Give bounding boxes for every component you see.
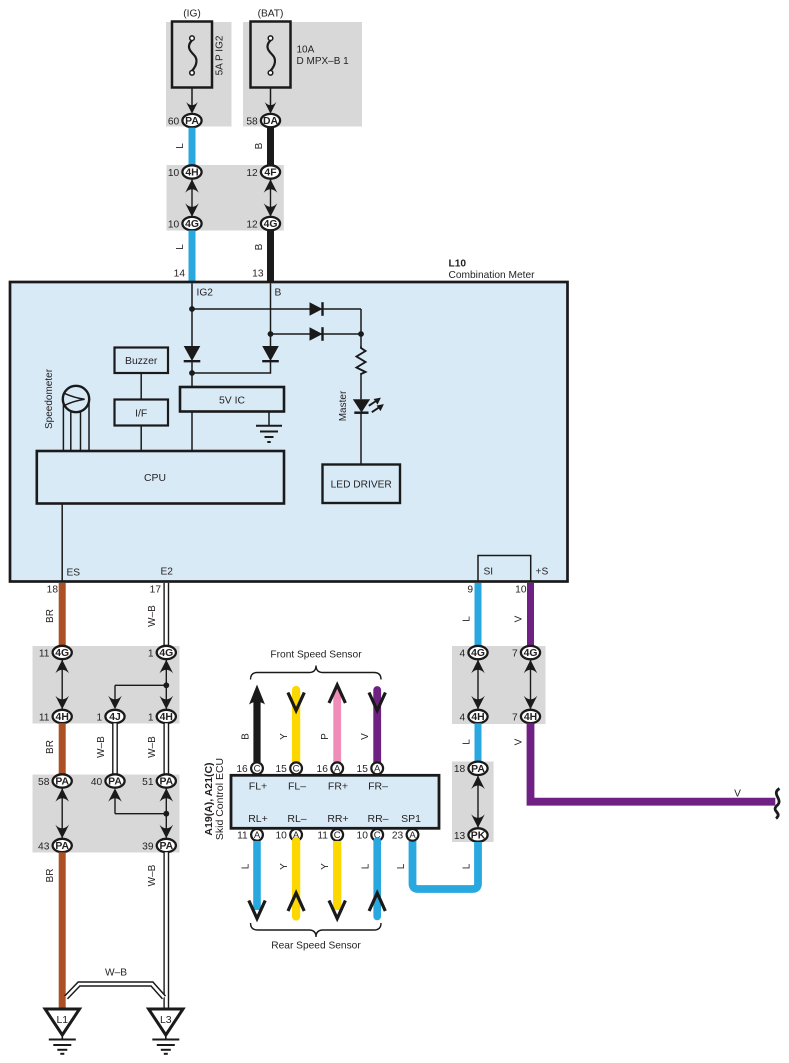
svg-text:Y: Y — [320, 863, 331, 870]
svg-text:DA: DA — [263, 116, 279, 127]
wire BR brown ES to 4G — [59, 583, 66, 646]
pin 11 (C) RR+ — [317, 829, 343, 842]
svg-text:L: L — [396, 863, 407, 869]
pin 16 (C) FL+ — [236, 762, 263, 775]
svg-text:4G: 4G — [524, 648, 538, 659]
svg-text:+S: +S — [536, 567, 549, 578]
skid control ECU box — [231, 775, 439, 828]
wire L blue 4G to meter pin 14 — [189, 230, 196, 282]
svg-text:D MPX–B 1: D MPX–B 1 — [297, 56, 350, 67]
CPU box — [37, 451, 284, 504]
svg-text:15: 15 — [275, 764, 287, 775]
connector 58 DA (battery feed) — [246, 114, 280, 128]
5V IC box — [180, 387, 284, 412]
svg-text:Y: Y — [279, 733, 290, 740]
svg-text:1: 1 — [148, 648, 154, 659]
wire L blue 4H to 18 PA — [475, 723, 482, 761]
svg-text:LED DRIVER: LED DRIVER — [331, 480, 392, 491]
wire W-B 4H to 51 PA — [163, 723, 169, 774]
connector 43 PA (left) — [38, 839, 72, 853]
svg-text:Buzzer: Buzzer — [125, 356, 158, 367]
svg-text:L: L — [361, 863, 372, 869]
svg-text:PA: PA — [471, 764, 485, 775]
svg-text:I/F: I/F — [135, 409, 147, 420]
svg-text:11: 11 — [317, 830, 328, 841]
svg-text:A: A — [334, 764, 341, 775]
svg-text:ES: ES — [67, 568, 81, 579]
speedometer gauge symbol — [63, 386, 89, 451]
svg-text:4G: 4G — [55, 648, 69, 659]
wire W-B E2 to 4G — [163, 583, 169, 646]
pin 16 (A) FR+ — [317, 762, 344, 775]
svg-text:Y: Y — [279, 863, 290, 870]
svg-text:BR: BR — [45, 740, 56, 754]
wire IG2 internal vertical — [191, 283, 193, 346]
pin 15 (A) FR- — [357, 762, 384, 775]
wire L blue SP1 to 13 PK — [413, 841, 479, 889]
svg-text:Speedometer: Speedometer — [44, 368, 55, 429]
svg-text:FL–: FL– — [288, 781, 306, 793]
connector 13 PK (right) — [454, 828, 488, 842]
svg-text:10: 10 — [168, 168, 180, 179]
svg-text:4J: 4J — [109, 712, 121, 723]
combination meter L10 box — [10, 282, 568, 582]
svg-text:4G: 4G — [264, 219, 278, 230]
svg-text:9: 9 — [467, 585, 473, 596]
gray panel 4G/4H junction (bottom left) — [33, 646, 180, 724]
connector 4 4G (right junction) — [460, 646, 488, 660]
svg-text:(IG): (IG) — [183, 9, 201, 20]
wire 5V IC to CPU — [191, 412, 193, 452]
SI terminal box — [478, 556, 531, 582]
svg-text:16: 16 — [317, 764, 329, 775]
wire V violet front sensor FR- (arrow down) — [369, 690, 385, 762]
svg-text:L1: L1 — [56, 1014, 68, 1026]
svg-text:10: 10 — [515, 585, 527, 596]
wire D4 to IG2 node — [192, 361, 271, 373]
svg-text:B: B — [254, 142, 265, 149]
svg-text:11: 11 — [39, 712, 50, 723]
wire B black DA to 4F — [267, 128, 274, 166]
junction W-B merge — [163, 811, 169, 817]
svg-text:L: L — [462, 863, 473, 869]
svg-text:L: L — [175, 143, 186, 149]
svg-text:A: A — [409, 830, 416, 841]
wire 5V IC to ground — [268, 412, 270, 426]
svg-text:12: 12 — [246, 219, 258, 230]
svg-text:L3: L3 — [160, 1014, 172, 1026]
wire branch to 4J — [108, 685, 166, 709]
svg-text:SP1: SP1 — [401, 813, 421, 825]
wire I/F to CPU — [140, 426, 142, 452]
svg-text:60: 60 — [168, 116, 180, 127]
wire BR brown 43 PA to ground L1 — [59, 852, 66, 1009]
svg-text:L10: L10 — [449, 259, 467, 270]
wire V violet +S to 4G — [527, 583, 534, 646]
svg-text:W–B: W–B — [105, 968, 127, 979]
svg-text:E2: E2 — [161, 567, 174, 578]
svg-text:SI: SI — [484, 567, 494, 578]
connector-pair arrows (51 PA to 39 PA) — [160, 788, 174, 838]
connector 1 4H (mid junction) — [148, 710, 176, 724]
svg-text:FR–: FR– — [368, 781, 388, 793]
svg-text:17: 17 — [150, 585, 162, 596]
wire diode output vertical — [360, 309, 362, 347]
connector 10 4H (junction top left) — [168, 165, 202, 179]
svg-text:P: P — [320, 733, 331, 740]
svg-text:40: 40 — [91, 777, 103, 788]
junction B branch — [268, 331, 274, 337]
svg-text:7: 7 — [512, 712, 518, 723]
svg-text:11: 11 — [237, 830, 248, 841]
ground internal 5V IC — [256, 426, 282, 442]
svg-text:IG2: IG2 — [197, 288, 214, 299]
gray panel behind fuse (IG) — [166, 22, 232, 127]
wire Y yellow rear sensor RL- (arrow up) — [288, 841, 304, 917]
svg-text:(BAT): (BAT) — [258, 9, 284, 20]
svg-text:4: 4 — [460, 712, 466, 723]
junction W-B branch to 4J — [163, 682, 169, 688]
svg-text:10: 10 — [357, 830, 369, 841]
diode D1 from IG2 — [310, 302, 323, 316]
connector-pair arrows (18 PA to 13 PK) — [471, 776, 485, 828]
svg-text:W–B: W–B — [147, 605, 158, 627]
connector 58 PA (left) — [38, 774, 72, 788]
svg-text:PK: PK — [471, 831, 486, 842]
wire 40 PA merge to main W-B — [108, 788, 166, 814]
svg-text:L: L — [241, 863, 252, 869]
svg-text:4H: 4H — [471, 712, 484, 723]
svg-text:58: 58 — [246, 116, 258, 127]
svg-text:B: B — [241, 733, 252, 740]
pin 10 (A) RL- — [275, 829, 302, 842]
wire fuse IG to connector PA — [186, 88, 198, 114]
connector 60 PA (ignition feed) — [168, 114, 202, 128]
svg-text:A: A — [254, 830, 261, 841]
svg-text:10A: 10A — [297, 45, 315, 56]
svg-text:FR+: FR+ — [328, 781, 348, 793]
gray panel PA/PK junction (right) — [452, 762, 494, 843]
svg-text:L: L — [175, 244, 186, 250]
I/F box — [115, 400, 169, 426]
connector 12 4F (junction top right) — [246, 165, 280, 179]
wire B black 4G to meter pin 13 — [267, 230, 274, 282]
connector-pair arrows (4G to 4H right a) — [471, 660, 485, 710]
svg-text:RR+: RR+ — [327, 813, 348, 825]
wire B to diode D2 horizontal — [271, 333, 362, 335]
connector-pair arrows (4H to 4G) — [185, 179, 199, 217]
ECU terminal labels top row — [249, 781, 388, 793]
svg-text:4G: 4G — [471, 648, 485, 659]
connector-pair arrows (4G to 4H right b) — [524, 660, 538, 710]
svg-text:18: 18 — [47, 585, 59, 596]
svg-text:L: L — [462, 739, 473, 745]
pin 10 (C) RR- — [357, 829, 384, 842]
brace front speed sensor — [251, 666, 382, 680]
svg-text:V: V — [514, 615, 525, 622]
svg-text:13: 13 — [454, 831, 466, 842]
svg-text:5V IC: 5V IC — [219, 395, 245, 406]
svg-text:RL–: RL– — [287, 813, 306, 825]
svg-text:10: 10 — [168, 219, 180, 230]
svg-text:V: V — [734, 789, 741, 800]
svg-text:PA: PA — [159, 841, 173, 852]
connector 11 4H (left junction) — [39, 710, 72, 724]
svg-text:4G: 4G — [159, 648, 173, 659]
svg-text:FL+: FL+ — [249, 781, 267, 793]
ground L1 — [45, 1009, 79, 1054]
svg-text:11: 11 — [39, 648, 50, 659]
svg-text:Master: Master — [338, 390, 349, 421]
svg-text:4H: 4H — [185, 168, 198, 179]
svg-text:PA: PA — [108, 777, 122, 788]
fuse IG 5A P IG2 — [172, 9, 212, 88]
svg-text:W–B: W–B — [147, 736, 158, 758]
svg-text:15: 15 — [357, 764, 369, 775]
svg-text:B: B — [275, 288, 282, 299]
wire break squiggle — [775, 789, 779, 819]
svg-text:C: C — [334, 830, 341, 841]
pin 11 (A) RL+ — [237, 829, 263, 842]
svg-text:4F: 4F — [264, 168, 276, 179]
svg-text:1: 1 — [148, 712, 154, 723]
svg-text:RL+: RL+ — [248, 813, 268, 825]
connector 12 4G (junction bottom right) — [246, 217, 280, 230]
svg-text:51: 51 — [142, 777, 154, 788]
svg-text:23: 23 — [392, 830, 404, 841]
gray panel 4H/4G junction (top) — [167, 165, 284, 231]
connector 4 4H (right junction) — [460, 710, 488, 724]
svg-text:L: L — [462, 616, 473, 622]
wire Y yellow front sensor FL- (arrow down) — [288, 690, 304, 762]
svg-text:7: 7 — [512, 648, 518, 659]
svg-text:18: 18 — [454, 764, 466, 775]
svg-text:A: A — [374, 764, 381, 775]
svg-text:Rear Speed Sensor: Rear Speed Sensor — [271, 941, 361, 952]
connector 11 4G (left junction) — [39, 646, 72, 660]
wire CPU to ES terminal — [61, 504, 63, 582]
connector-pair arrows (4G to 4H left) — [55, 660, 69, 710]
connector 51 PA (mid) — [142, 774, 176, 788]
connector 18 PA (right) — [454, 762, 488, 776]
svg-text:V: V — [514, 738, 525, 745]
connector 1 4J (branch junction) — [97, 710, 125, 724]
LED driver box — [323, 465, 401, 504]
svg-text:PA: PA — [185, 116, 199, 127]
svg-text:PA: PA — [55, 777, 69, 788]
wire L blue SI to 4G — [475, 583, 482, 646]
wire L blue PA to 4H — [189, 128, 196, 166]
wire Y yellow rear sensor RR+ (arrow down) — [329, 841, 345, 919]
connector 39 PA (mid) — [142, 839, 176, 853]
svg-text:PA: PA — [55, 841, 69, 852]
svg-text:4H: 4H — [160, 712, 173, 723]
diode D2 from B — [310, 327, 323, 341]
connector 10 4G (junction bottom left) — [168, 217, 202, 230]
wire B internal vertical — [270, 283, 272, 346]
wire D3 to 5V IC — [191, 361, 193, 387]
svg-text:4H: 4H — [56, 712, 69, 723]
wire LED to LED driver — [360, 413, 362, 465]
svg-text:PA: PA — [159, 777, 173, 788]
svg-text:12: 12 — [246, 168, 258, 179]
junction diode outputs join — [358, 331, 364, 337]
pin 23 (A) SP1 — [392, 829, 419, 842]
svg-text:43: 43 — [38, 841, 50, 852]
svg-text:14: 14 — [174, 269, 186, 280]
wire W-B 4J to 40 PA — [112, 723, 118, 774]
resistor for master LED — [357, 347, 366, 375]
svg-text:13: 13 — [252, 269, 264, 280]
ECU terminal labels bottom row — [248, 813, 421, 825]
svg-text:Skid Control ECU: Skid Control ECU — [214, 758, 226, 840]
wire buzzer to I/F — [140, 373, 142, 400]
svg-text:CPU: CPU — [144, 473, 166, 484]
wire L blue rear sensor RL+ (arrow down) — [249, 841, 265, 919]
LED Master indicator — [353, 398, 384, 413]
wire IG2 to diode D1 horizontal — [192, 308, 361, 310]
gray panel behind fuse (BAT) — [243, 22, 362, 127]
svg-text:Front Speed Sensor: Front Speed Sensor — [270, 650, 362, 661]
gray panel PA junction (bottom left) — [33, 775, 180, 853]
connector 40 PA (mid branch) — [91, 774, 125, 788]
connector-pair arrows (4G to 4H mid) — [160, 660, 174, 710]
svg-text:BR: BR — [45, 869, 56, 883]
diode D3 IG2 to 5V IC — [184, 346, 201, 361]
svg-text:V: V — [360, 733, 371, 740]
connector-pair arrows (4F to 4G) — [264, 179, 278, 217]
wire L blue rear sensor RR- (arrow up) — [369, 841, 385, 917]
wire fuse BAT to connector DA — [265, 88, 277, 114]
pin 15 (C) FL- — [275, 762, 302, 775]
connector 7 4G (right junction) — [512, 646, 540, 660]
svg-text:4H: 4H — [524, 712, 537, 723]
svg-text:B: B — [254, 243, 265, 250]
svg-text:RR–: RR– — [367, 813, 388, 825]
svg-text:Combination Meter: Combination Meter — [449, 270, 536, 281]
ground L3 — [149, 1009, 183, 1054]
svg-text:4: 4 — [460, 648, 466, 659]
wire V violet 4H to right edge — [531, 723, 776, 801]
wire B black front sensor FL+ (arrow up) — [249, 685, 265, 763]
fuse BAT 10A D MPX-B 1 — [251, 9, 291, 88]
svg-text:C: C — [293, 764, 300, 775]
wire P pink front sensor FR+ (arrow up) — [329, 685, 345, 762]
buzzer box — [115, 348, 169, 374]
connector-pair arrows (58 PA to 43 PA) — [55, 788, 69, 838]
svg-text:W–B: W–B — [96, 736, 107, 758]
wire resistor to LED — [360, 374, 362, 399]
svg-text:W–B: W–B — [147, 864, 158, 886]
svg-text:10: 10 — [275, 830, 287, 841]
svg-text:BR: BR — [45, 609, 56, 623]
junction IG2 branch — [189, 306, 195, 312]
wire BR brown 4H to PA — [59, 723, 66, 774]
junction 5V IC input — [189, 370, 195, 376]
svg-text:39: 39 — [142, 841, 154, 852]
wire W-B ground link — [66, 984, 164, 998]
brace rear speed sensor — [251, 923, 382, 937]
svg-text:C: C — [254, 764, 261, 775]
wire W-B 39 PA to ground L3 — [163, 852, 169, 1009]
svg-text:1: 1 — [97, 712, 103, 723]
connector 1 4G (mid junction) — [148, 646, 176, 660]
diode D4 B to 5V IC — [262, 346, 279, 361]
svg-text:16: 16 — [236, 764, 248, 775]
svg-text:4G: 4G — [185, 219, 199, 230]
connector 7 4H (right junction) — [512, 710, 540, 724]
gray panel 4G/4H junction (right) — [452, 646, 546, 724]
svg-text:5A P IG2: 5A P IG2 — [215, 35, 226, 75]
svg-text:58: 58 — [38, 777, 50, 788]
